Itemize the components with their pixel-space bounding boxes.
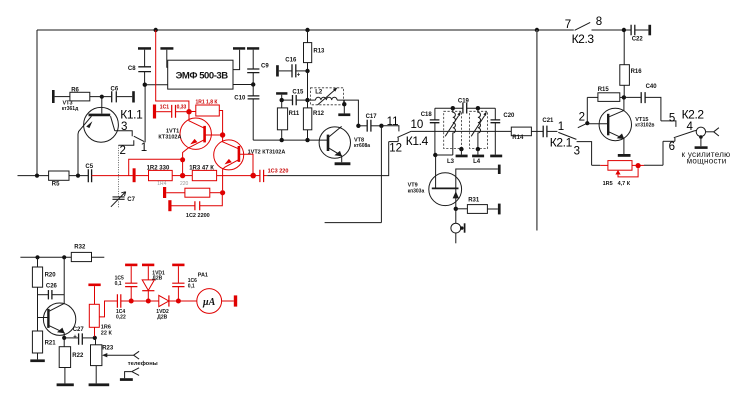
node VT9 source junction [454,207,458,211]
svg-text:1R4: 1R4 [157,181,166,187]
svg-text:C5: C5 [85,164,93,170]
capacitor C10 [234,85,259,141]
filter EMF 500-3V [168,60,233,89]
svg-text:C8: C8 [128,66,136,72]
resistor R16 [620,30,642,97]
capacitor C19 [458,98,470,113]
capacitor C6 [111,86,119,102]
svg-text:К2.1: К2.1 [550,136,573,150]
svg-text:C17: C17 [366,114,378,120]
transistor VT15 [599,108,654,154]
capacitor 1C1 [156,104,187,117]
svg-text:10: 10 [411,119,424,131]
wire top supply rail left part [37,29,574,31]
resistor R6 [70,87,90,101]
wire input line [18,175,49,177]
svg-text:R22: R22 [72,353,84,359]
node contact 2 junction [585,121,589,125]
svg-text:5: 5 [669,113,675,125]
node R11 C15 junction [280,98,284,102]
capacitor C18 [421,108,440,155]
transistor 1VT2 [214,135,286,190]
svg-text:C19: C19 [458,98,470,104]
inductor L2 [308,87,359,125]
ground R21 [30,359,45,362]
svg-text:1: 1 [141,142,147,154]
resistor 1R4 [157,181,222,197]
wire 1C3 output to contact 12 [267,142,389,176]
ground bar above EMF left pin [160,47,173,67]
wire C5 to red module input (red) [92,175,133,177]
capacitor C17 [358,114,381,132]
svg-text:22 К: 22 К [101,331,113,337]
jack phones ground [125,368,140,378]
wire VT8 base rail [253,139,328,141]
svg-text:Д2В: Д2В [152,276,162,282]
svg-text:+: + [297,72,301,78]
node collector top [62,255,66,259]
connector output to amplifier [695,127,719,146]
svg-text:C26: C26 [46,284,58,290]
svg-text:C9: C9 [261,63,269,69]
node EMF output junction [251,82,255,86]
node divider rail tap [535,28,539,32]
svg-text:PA1: PA1 [198,272,208,278]
terminal plate red module input [133,168,136,182]
ground L3 [456,149,468,157]
node R12 C15 junction [305,98,309,102]
wire bypass vertical [380,126,382,223]
svg-text:К1.4: К1.4 [406,134,429,148]
transistor 1VT1 [158,112,220,158]
svg-text:C10: C10 [234,95,246,101]
svg-text:ЭМФ 500-3В: ЭМФ 500-3В [176,71,229,82]
svg-text:мощности: мощности [687,157,727,166]
wiper arrow R23 [102,353,134,357]
resistor R5 [49,171,69,188]
resistor 1R3 [183,165,251,180]
node C22 junction [622,28,626,32]
svg-text:1: 1 [558,121,564,133]
node R11 bottom [280,138,284,142]
svg-text:C22: C22 [632,37,644,43]
resistor R15 [587,87,624,102]
svg-text:К1.1: К1.1 [120,108,143,122]
svg-text:телефоны: телефоны [128,360,158,367]
wire bypass bottom [325,222,382,224]
capacitor C20 [491,108,516,154]
variable capacitor C7 [111,192,136,209]
svg-text:R11: R11 [289,111,300,117]
ground jack [120,378,133,381]
ground connector [695,146,708,149]
terminal plate left of R6 [52,90,55,103]
wire VT15 collector [623,97,625,110]
svg-text:4,7 К: 4,7 К [618,181,631,187]
terminal plate VT9 drain [498,165,501,174]
ground R22 [57,383,74,386]
svg-text:1R2 330: 1R2 330 [147,165,170,171]
node VT8 collector junction [356,124,360,128]
terminal plate right of C6 [132,91,135,102]
wire red supply drop [156,30,189,110]
capacitor 1C4 [116,294,131,320]
svg-text:1R5: 1R5 [603,181,613,187]
wire plate to R6 [55,96,70,98]
svg-text:1R3 47 К: 1R3 47 К [189,165,214,171]
svg-text:кт608а: кт608а [354,143,370,149]
capacitor C8 [128,66,151,85]
wire detector line [131,300,158,302]
node R20 top [35,255,39,259]
terminal plate above 1C6 [172,264,184,267]
resistor R32 [71,244,91,261]
transistor VT9 [408,169,498,209]
svg-text:C27: C27 [73,327,85,333]
capacitor 1C2 [172,193,223,219]
node 1R5 wiper junction [636,163,641,168]
svg-text:C15: C15 [292,89,304,95]
svg-text:12: 12 [389,142,402,154]
terminal plate above 1VD1 [142,264,154,267]
capacitor 1C3 [253,168,288,182]
svg-text:C6: C6 [111,86,119,92]
svg-text:1R6: 1R6 [101,324,111,330]
svg-text:1R1 1,8 К: 1R1 1,8 К [196,100,219,106]
svg-text:C21: C21 [542,118,554,124]
svg-text:3: 3 [121,121,127,133]
capacitor C21 [542,118,554,137]
svg-text:0,33: 0,33 [177,104,187,110]
meter PA1 [178,272,233,313]
ground VT8 emitter [335,162,351,165]
capacitor C16 [279,58,308,79]
terminal plate R31 right [498,204,501,215]
node L3 top [451,106,455,110]
wire left border vertical [36,30,38,176]
node R12 bottom [305,138,309,142]
resistor R14 [511,127,531,141]
resistor R23 [91,338,114,384]
transistor VT3 [62,97,119,176]
capacitor C22 [631,25,648,43]
svg-text:C18: C18 [421,112,433,118]
wire R6 to C6 [90,96,112,98]
svg-text:2: 2 [579,112,585,124]
terminal plate 1C1 input [153,105,156,119]
svg-text:L4: L4 [473,159,481,165]
relay contact K2.3 [565,16,602,46]
node 1VT1 emitter junction [180,157,185,162]
svg-text:L3: L3 [447,159,455,165]
svg-text:R5: R5 [52,182,60,188]
wire EMF output [233,84,253,86]
wire VT9 gate [435,155,437,188]
capacitor 1C5 [115,266,138,301]
wire VT15 base [587,123,608,125]
svg-text:R13: R13 [313,48,325,54]
node top rail red tap [154,28,158,32]
svg-text:R14: R14 [512,135,524,141]
connector below VT9 [451,209,465,244]
svg-text:1C1: 1C1 [160,104,169,110]
potentiometer 1R5 [600,161,644,187]
capacitor C26 [38,284,65,300]
node C27 R23 1R6 junction [93,336,97,340]
capacitor C9 [247,63,269,84]
node 1VD1 junction [146,299,151,304]
svg-text:220: 220 [180,181,189,187]
transistor VT8 [319,126,370,162]
resistor 1R1 [189,100,223,133]
svg-text:R32: R32 [74,244,86,250]
node contact 11 junction [379,124,383,128]
svg-text:К2.2: К2.2 [682,108,705,122]
terminal plate above 1C5 [125,264,137,267]
resistor R11 [277,100,300,140]
wire R5 to C5 [69,175,88,177]
svg-text:К2.3: К2.3 [572,32,595,46]
relay contact K2.1 [550,97,592,165]
terminal plate 1R4 [163,187,166,198]
svg-text:R31: R31 [468,197,480,203]
node L2 ground tap [342,102,346,106]
ground bar above EMF right pin [233,47,245,69]
terminal plate meter right [234,295,237,306]
ground C20 [490,155,502,158]
diode 1VD1 [142,266,165,301]
svg-text:R16: R16 [631,69,643,75]
svg-text:6: 6 [669,141,675,153]
svg-text:КТ3102А: КТ3102А [158,135,181,141]
svg-text:+: + [73,335,77,341]
wire red feedback riser [129,159,183,175]
relay contact K2.2 [661,108,704,166]
node VT3 emitter junction [76,174,80,178]
svg-text:C40: C40 [646,84,658,90]
ground L4 [472,149,484,157]
svg-text:R15: R15 [598,87,610,93]
relay contact K1.4 [381,116,428,154]
wire bottom block supply rail [20,256,104,258]
svg-text:1C2 2200: 1C2 2200 [186,213,210,219]
wire contact2 down to C7 [118,145,120,197]
terminal plate above 1R6 [88,284,100,287]
node 1VT1 base junction [186,109,191,114]
wire R14 to C21 [531,130,543,132]
wire bandpass main line [411,130,511,132]
node C8 bottom junction [143,83,147,87]
ground L2 [338,100,350,116]
terminal plate left of C16 [276,65,279,76]
resistor R31 [456,197,498,213]
svg-text:C16: C16 [285,58,297,64]
relay contact K1.1 [115,85,147,157]
diode 1VD2 [156,295,178,320]
wire C21 to contact 1 [547,130,558,132]
node R13 C16 junction [305,69,309,73]
wire 1R5 to contact 6 [644,164,663,166]
node C18 VT9 tap [433,153,437,157]
jack phones hot [134,351,140,359]
wire screen divider [536,30,538,231]
wire C6 to plate [116,96,132,98]
ground VT15 emitter [618,154,631,157]
svg-text:1C3 220: 1C3 220 [268,168,289,174]
resistor R21 [32,331,56,359]
node 1VT2 collector junction [220,132,225,137]
node L3 ground [459,147,463,151]
inductor L3 [444,108,462,165]
resistor 1R6 [89,286,112,337]
svg-text:R6: R6 [71,87,79,93]
node emitter junction [62,336,66,340]
node 1C5 junction [129,299,134,304]
ground bar above C9 [247,47,259,69]
resistor R20 [32,257,56,331]
svg-text:4: 4 [687,121,694,133]
svg-text:3: 3 [574,145,580,157]
wire contact3 to 1R5 [592,164,601,166]
node L4 top [476,106,480,110]
wire tap to L3 bottom [435,154,453,156]
svg-text:C7: C7 [127,197,135,203]
ground bar above C8 [138,47,151,66]
node 1R4 junction [220,190,225,195]
transistor VT bottom block [38,257,76,338]
capacitor C40 [624,84,661,121]
svg-text:0,1: 0,1 [188,283,195,289]
ground R23 [89,383,110,386]
svg-text:L2: L2 [315,90,323,96]
wire 1VT1 emitter to rail [182,160,184,176]
svg-text:C20: C20 [503,113,515,119]
capacitor C27 [64,327,95,345]
svg-text:R23: R23 [102,346,114,352]
svg-text:0,22: 0,22 [116,314,126,320]
svg-text:µА: µА [202,297,216,308]
node 1R2 1R3 junction [180,173,185,178]
node 1C3 junction [250,173,256,179]
wire EMF input [145,84,168,86]
terminal plate 1C2 [168,200,171,211]
wire C16 junction down [307,71,309,100]
node L4 ground [476,147,480,151]
capacitor C5 [85,164,93,182]
svg-text:R12: R12 [313,111,325,117]
svg-text:R21: R21 [45,341,57,347]
svg-text:11: 11 [387,116,399,128]
resistor R13 [304,30,326,71]
ground bar above R11 [276,92,287,100]
svg-text:1VT2 КТ3102А: 1VT2 КТ3102А [248,150,286,156]
node 1C6 junction [176,299,181,304]
resistor R22 [59,338,84,384]
wire filter top bus [435,107,495,109]
capacitor 1C6 [172,266,197,301]
node input junction [35,174,39,178]
svg-text:2: 2 [120,145,126,157]
wire 1R6 tap to 1C4 [99,301,117,317]
resistor R12 [303,100,324,140]
wire top rail right part [592,29,631,31]
svg-text:кп303а: кп303а [408,188,425,194]
svg-text:0,1: 0,1 [115,281,122,287]
capacitor C15 [282,89,308,105]
terminal plate C22 right [648,25,651,36]
svg-text:кт3102в: кт3102в [635,122,654,128]
svg-text:кт361д: кт361д [62,106,79,112]
inductor L4 [470,108,488,165]
resistor 1R2 [147,165,180,180]
svg-text:7: 7 [565,19,571,31]
svg-text:8: 8 [596,16,602,28]
node VT3 base junction [100,95,104,99]
svg-text:R20: R20 [45,273,57,279]
svg-text:Д2В: Д2В [157,314,167,320]
node R15 R16 C40 junction [622,95,626,99]
node R13 rail tap [305,28,309,32]
wire plate to 1R2 [136,175,149,177]
